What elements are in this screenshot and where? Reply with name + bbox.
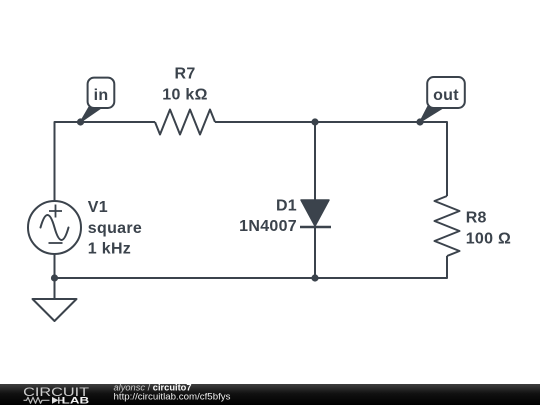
logo diode [52, 397, 59, 404]
wire: left vertical + top wire to R7 [55, 122, 156, 202]
V1 sine wave [41, 215, 69, 240]
svg-text:in: in [94, 87, 109, 104]
node dot V1 bottom [51, 274, 58, 281]
svg-text:http://circuitlab.com/cf5bfys: http://circuitlab.com/cf5bfys [114, 392, 231, 402]
svg-text:square: square [88, 220, 142, 237]
svg-text:1 kHz: 1 kHz [88, 241, 131, 258]
svg-text:V1: V1 [88, 199, 108, 216]
wire: top wire R7 to right corner, down to R8 [215, 122, 447, 196]
svg-text:R8: R8 [466, 210, 487, 227]
ground [33, 299, 77, 321]
svg-text:LAB: LAB [62, 396, 89, 405]
flag box out [427, 77, 465, 108]
flag box in [88, 78, 115, 108]
node dot middle-bottom [311, 274, 318, 281]
node dot middle-top [311, 118, 318, 125]
voltage source V1 circle [28, 201, 81, 254]
wire: R8 bottom, bottom wire to left [55, 256, 448, 278]
diode D1 triangle [301, 200, 329, 226]
svg-text:D1: D1 [276, 197, 297, 214]
resistor R8 [435, 196, 460, 256]
node dot in [77, 118, 84, 125]
svg-text:10 kΩ: 10 kΩ [162, 86, 207, 103]
diode D1 cathode bar [300, 226, 331, 228]
flag tail out [420, 107, 445, 123]
svg-text:out: out [433, 87, 459, 104]
resistor R7 [155, 110, 215, 135]
V1 plus sign [49, 205, 62, 218]
logo resistor squiggle [24, 397, 50, 403]
svg-text:100 Ω: 100 Ω [466, 230, 511, 247]
wire: V1 bottom to ground [54, 254, 56, 300]
footer bar [0, 384, 540, 405]
wire: diode cathode to bottom wire [314, 227, 316, 278]
node dot out [416, 118, 423, 125]
wire: middle branch top (node to diode) [314, 122, 316, 200]
svg-text:1N4007: 1N4007 [239, 218, 297, 235]
svg-text:R7: R7 [174, 66, 195, 83]
flag tail in [81, 107, 104, 123]
V1 minus sign [49, 242, 63, 244]
